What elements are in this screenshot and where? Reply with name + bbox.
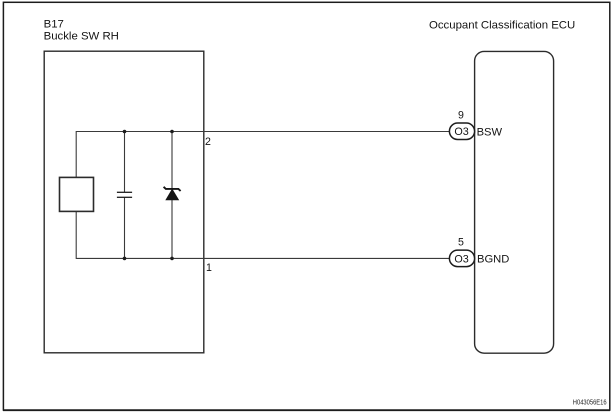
connector O3 pin 9 (oval) [449,123,474,140]
junction: BGND wire / diode [170,257,174,261]
svg-text:1: 1 [206,262,212,274]
connector B17 Buckle SW RH label [44,18,119,42]
svg-text:5: 5 [458,237,464,249]
svg-text:Buckle SW RH: Buckle SW RH [44,31,119,43]
capacitor C (plates) [117,192,132,197]
wire BGND: pin 1 to pin 5 [76,257,449,259]
switch (buckle switch contact square) [60,177,94,211]
svg-text:O3: O3 [454,253,468,265]
junction: BSW wire / capacitor [123,130,127,134]
svg-text:9: 9 [458,110,464,122]
svg-text:BSW: BSW [477,126,503,138]
Occupant Classification ECU box [475,51,554,353]
svg-text:Occupant Classification ECU: Occupant Classification ECU [429,20,575,32]
svg-text:2: 2 [205,136,211,148]
wire: left branch to switch top [75,131,77,178]
wire: capacitor bottom lead [124,197,126,258]
Buckle SW RH component box [44,51,204,353]
wire: switch bottom to BGND wire [75,211,77,259]
zener diode D (cathode bar with zener wings) [164,187,181,191]
junction: BGND wire / capacitor [123,257,127,261]
svg-text:B17: B17 [44,18,64,30]
svg-text:BGND: BGND [477,254,509,266]
zener diode D (anode triangle) [166,189,179,200]
svg-text:O3: O3 [454,126,468,138]
junction: BSW wire / diode [170,130,174,134]
wire: zener diode branch [171,132,173,259]
svg-text:H043056E16: H043056E16 [573,398,607,407]
wire: capacitor top lead [124,132,126,193]
connector O3 pin 5 (oval) [449,250,474,267]
wire BSW: pin 2 to pin 9 [76,131,449,133]
